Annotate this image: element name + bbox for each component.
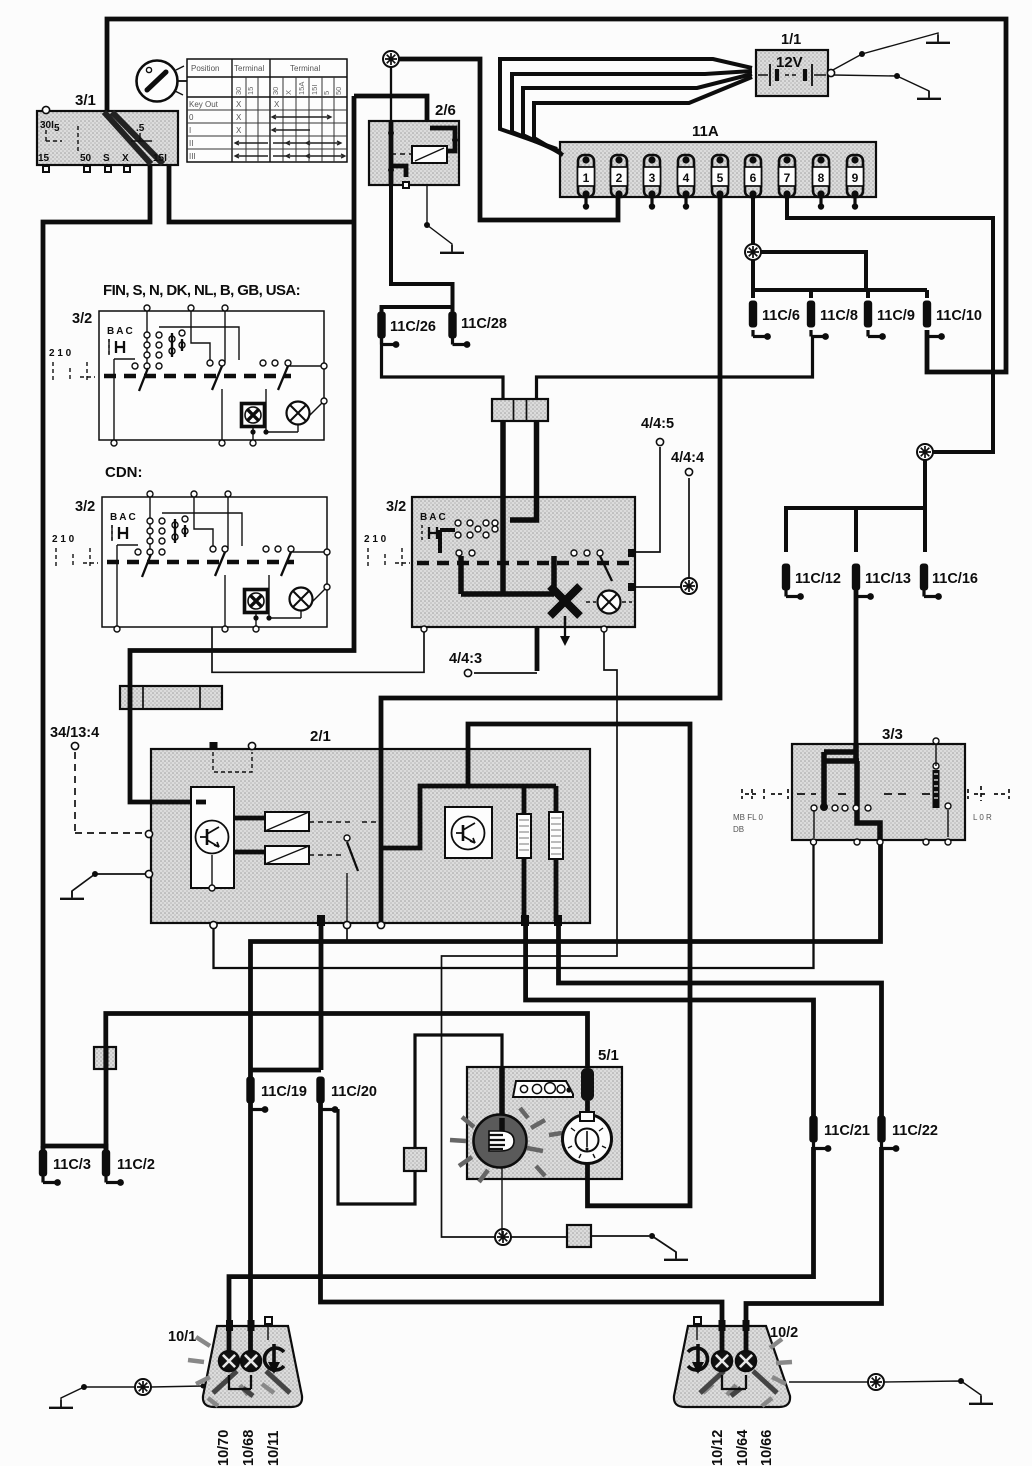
- svg-text:II: II: [189, 139, 193, 148]
- svg-text:BAC: BAC: [110, 512, 138, 523]
- svg-text:11C/10: 11C/10: [936, 308, 982, 324]
- svg-text:Terminal: Terminal: [290, 64, 320, 73]
- svg-text:III: III: [189, 152, 196, 161]
- svg-text:DB: DB: [733, 825, 744, 834]
- svg-text:BAC: BAC: [107, 326, 135, 337]
- svg-text:11A: 11A: [692, 123, 719, 140]
- svg-text:1: 1: [583, 171, 590, 185]
- svg-text:11C/2: 11C/2: [117, 1157, 155, 1173]
- svg-text:7: 7: [784, 171, 791, 185]
- svg-text:4/4:5: 4/4:5: [641, 416, 674, 432]
- svg-text:50: 50: [80, 153, 92, 164]
- svg-text:11C/21: 11C/21: [824, 1123, 870, 1139]
- svg-text:2/6: 2/6: [435, 102, 456, 119]
- svg-text:2 1 0: 2 1 0: [52, 534, 75, 545]
- svg-text:5: 5: [54, 123, 60, 134]
- svg-text:10/11: 10/11: [266, 1431, 282, 1466]
- svg-text:MB FL 0: MB FL 0: [733, 813, 763, 822]
- svg-text:15: 15: [246, 87, 255, 95]
- svg-text:30: 30: [271, 87, 280, 95]
- svg-text:11C/12: 11C/12: [795, 571, 841, 587]
- svg-text:Key Out: Key Out: [189, 100, 219, 109]
- svg-text:3/2: 3/2: [386, 499, 406, 515]
- svg-text:11C/20: 11C/20: [331, 1084, 377, 1100]
- svg-text:10/66: 10/66: [759, 1430, 775, 1466]
- svg-text:FIN, S, N, DK, NL, B, GB, USA:: FIN, S, N, DK, NL, B, GB, USA:: [103, 282, 300, 299]
- svg-text:3/3: 3/3: [882, 726, 903, 743]
- svg-text:11C/26: 11C/26: [390, 319, 436, 335]
- svg-text:11C/13: 11C/13: [865, 571, 911, 587]
- svg-text:10/1: 10/1: [168, 1329, 196, 1345]
- svg-text:X: X: [236, 113, 242, 122]
- svg-text:3: 3: [649, 171, 656, 185]
- svg-text:X: X: [236, 100, 242, 109]
- svg-text:4/4:3: 4/4:3: [449, 651, 482, 667]
- svg-text:.5: .5: [136, 123, 145, 134]
- svg-text:3/2: 3/2: [75, 499, 95, 515]
- svg-text:11C/28: 11C/28: [461, 316, 507, 332]
- svg-text:30I: 30I: [40, 120, 54, 131]
- svg-text:6: 6: [750, 171, 757, 185]
- svg-text:2/1: 2/1: [310, 728, 331, 745]
- svg-text:3/2: 3/2: [72, 311, 92, 327]
- svg-text:3/1: 3/1: [75, 92, 96, 109]
- svg-text:Position: Position: [191, 64, 219, 73]
- svg-text:10/2: 10/2: [770, 1325, 798, 1341]
- svg-text:30: 30: [234, 87, 243, 95]
- svg-text:10/70: 10/70: [216, 1430, 232, 1466]
- svg-text:15: 15: [38, 153, 50, 164]
- svg-text:10/64: 10/64: [735, 1430, 751, 1466]
- svg-text:15I: 15I: [310, 85, 319, 95]
- svg-text:BAC: BAC: [420, 512, 448, 523]
- svg-text:X: X: [274, 100, 280, 109]
- svg-text:4: 4: [683, 171, 690, 185]
- svg-text:9: 9: [852, 171, 859, 185]
- svg-text:2 1 0: 2 1 0: [49, 348, 72, 359]
- svg-text:11C/3: 11C/3: [53, 1157, 91, 1173]
- svg-text:11C/19: 11C/19: [261, 1084, 307, 1100]
- svg-text:1/1: 1/1: [781, 32, 801, 48]
- svg-text:11C/6: 11C/6: [762, 308, 800, 324]
- svg-text:5: 5: [717, 171, 724, 185]
- svg-text:4/4:4: 4/4:4: [671, 450, 704, 466]
- svg-text:10/12: 10/12: [710, 1430, 726, 1466]
- svg-text:11C/8: 11C/8: [820, 308, 858, 324]
- svg-text:0: 0: [189, 113, 194, 122]
- svg-text:X: X: [284, 90, 293, 95]
- svg-text:S: S: [103, 153, 110, 164]
- svg-text:I: I: [189, 126, 191, 135]
- svg-text:11C/16: 11C/16: [932, 571, 978, 587]
- svg-text:X: X: [122, 153, 129, 164]
- svg-text:8: 8: [818, 171, 825, 185]
- svg-text:12V: 12V: [776, 54, 803, 71]
- svg-text:5: 5: [322, 91, 331, 95]
- svg-text:15A: 15A: [297, 82, 306, 95]
- svg-text:L 0 R: L 0 R: [973, 813, 992, 822]
- svg-text:5/1: 5/1: [598, 1047, 619, 1064]
- svg-text:Terminal: Terminal: [234, 64, 264, 73]
- svg-text:X: X: [236, 126, 242, 135]
- svg-text:50: 50: [334, 87, 343, 95]
- svg-text:10/68: 10/68: [241, 1430, 257, 1466]
- svg-text:2: 2: [616, 171, 623, 185]
- svg-text:2 1 0: 2 1 0: [364, 534, 387, 545]
- svg-text:11C/22: 11C/22: [892, 1123, 938, 1139]
- svg-text:15I: 15I: [153, 153, 167, 164]
- svg-text:CDN:: CDN:: [105, 464, 143, 481]
- svg-text:11C/9: 11C/9: [877, 308, 915, 324]
- svg-text:34/13:4: 34/13:4: [50, 725, 99, 741]
